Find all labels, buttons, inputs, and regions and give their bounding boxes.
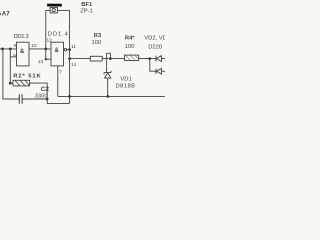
wire VD2 out xyxy=(162,58,166,60)
junction ground rail / output vertical xyxy=(68,95,71,98)
wire C2 right xyxy=(22,98,47,100)
wire input net pins 8/9 xyxy=(0,48,17,50)
svg-text:VD1: VD1 xyxy=(120,77,131,83)
wire BF1 top right xyxy=(57,9,69,11)
svg-text:100: 100 xyxy=(125,44,135,50)
svg-text:10: 10 xyxy=(31,43,37,49)
wire output stub from bubble xyxy=(67,49,70,51)
svg-text:11: 11 xyxy=(71,44,76,50)
svg-text:9: 9 xyxy=(13,53,16,59)
svg-text:14: 14 xyxy=(71,62,77,68)
junction VD1 top / rail xyxy=(109,57,112,60)
gate DD1.3 xyxy=(17,42,30,66)
svg-text:DD1.4: DD1.4 xyxy=(48,31,69,37)
wire ground rail xyxy=(58,95,165,97)
capacitor C2 xyxy=(19,94,22,103)
svg-text:А7: А7 xyxy=(2,10,10,17)
svg-text:3300: 3300 xyxy=(35,94,48,100)
svg-text:D220: D220 xyxy=(148,44,162,50)
resistor R4 xyxy=(125,55,139,60)
junction C2 right / R2 corner xyxy=(46,98,49,101)
wire R3 to R4 xyxy=(102,58,124,60)
junction left rail / input wire xyxy=(1,48,4,51)
svg-text:13: 13 xyxy=(38,59,44,65)
svg-text:8: 8 xyxy=(14,43,17,49)
wire VD3 branch xyxy=(150,59,156,72)
wire left rail to C2 xyxy=(3,49,19,99)
junction VD2-VD3 branch xyxy=(148,57,151,60)
svg-text:100: 100 xyxy=(92,40,102,46)
inverter bubble DD1.4 output xyxy=(64,48,66,50)
junction R2 left xyxy=(9,82,12,85)
wire output 11 long vertical xyxy=(69,10,71,103)
wire R2 right to lower rail xyxy=(30,83,70,103)
wire VD3 out xyxy=(162,70,166,72)
svg-text:DD1.3: DD1.3 xyxy=(14,34,29,40)
wire BF1 top left xyxy=(46,9,50,11)
svg-text:R4*: R4* xyxy=(125,36,135,42)
resistor R3 xyxy=(90,56,102,61)
wire pin7 down xyxy=(57,66,59,97)
wire VD1 vertical upper xyxy=(106,53,108,72)
wire pin14 rail xyxy=(70,58,91,60)
svg-text:R2* 51K: R2* 51K xyxy=(13,73,41,79)
wire VD1 bump top xyxy=(107,53,111,58)
svg-text:ZP-1: ZP-1 xyxy=(80,8,93,14)
wire pin9 / R2-left rail xyxy=(9,49,11,83)
junction pin13 corner xyxy=(45,58,47,60)
svg-text:D818B: D818B xyxy=(116,83,136,89)
junction output 11 node xyxy=(68,48,71,51)
diode VD2 xyxy=(156,56,162,62)
svg-text:R3: R3 xyxy=(94,33,102,39)
diode VD3 xyxy=(156,69,162,75)
svg-text:&: & xyxy=(20,49,25,55)
svg-text:12: 12 xyxy=(47,38,53,44)
svg-text:&: & xyxy=(55,48,60,54)
wire BF1 left leg down to pin13 xyxy=(46,10,51,59)
buzzer BF1 xyxy=(47,4,62,7)
wire pin 9 stub xyxy=(10,56,16,58)
junction pin14 rail xyxy=(68,57,71,60)
svg-text:BF1: BF1 xyxy=(81,2,93,8)
svg-text:C2: C2 xyxy=(41,86,50,93)
gate DD1.4 xyxy=(51,42,64,66)
junction VD1 bottom / ground rail xyxy=(106,95,109,98)
svg-text:7: 7 xyxy=(59,69,62,75)
junction BF1 left leg / pin12 wire xyxy=(44,48,47,51)
junction pin9 rail / input wire xyxy=(9,48,12,51)
wire R4 right xyxy=(139,58,156,60)
zener diode VD1 xyxy=(104,71,111,78)
wire DD1.3 out to DD1.4 in xyxy=(29,48,51,50)
svg-text:VD2, VD3: VD2, VD3 xyxy=(144,35,165,41)
resistor R2 xyxy=(13,80,30,86)
wire VD1 vertical lower xyxy=(107,78,109,96)
wire R2 left stub xyxy=(10,82,13,84)
